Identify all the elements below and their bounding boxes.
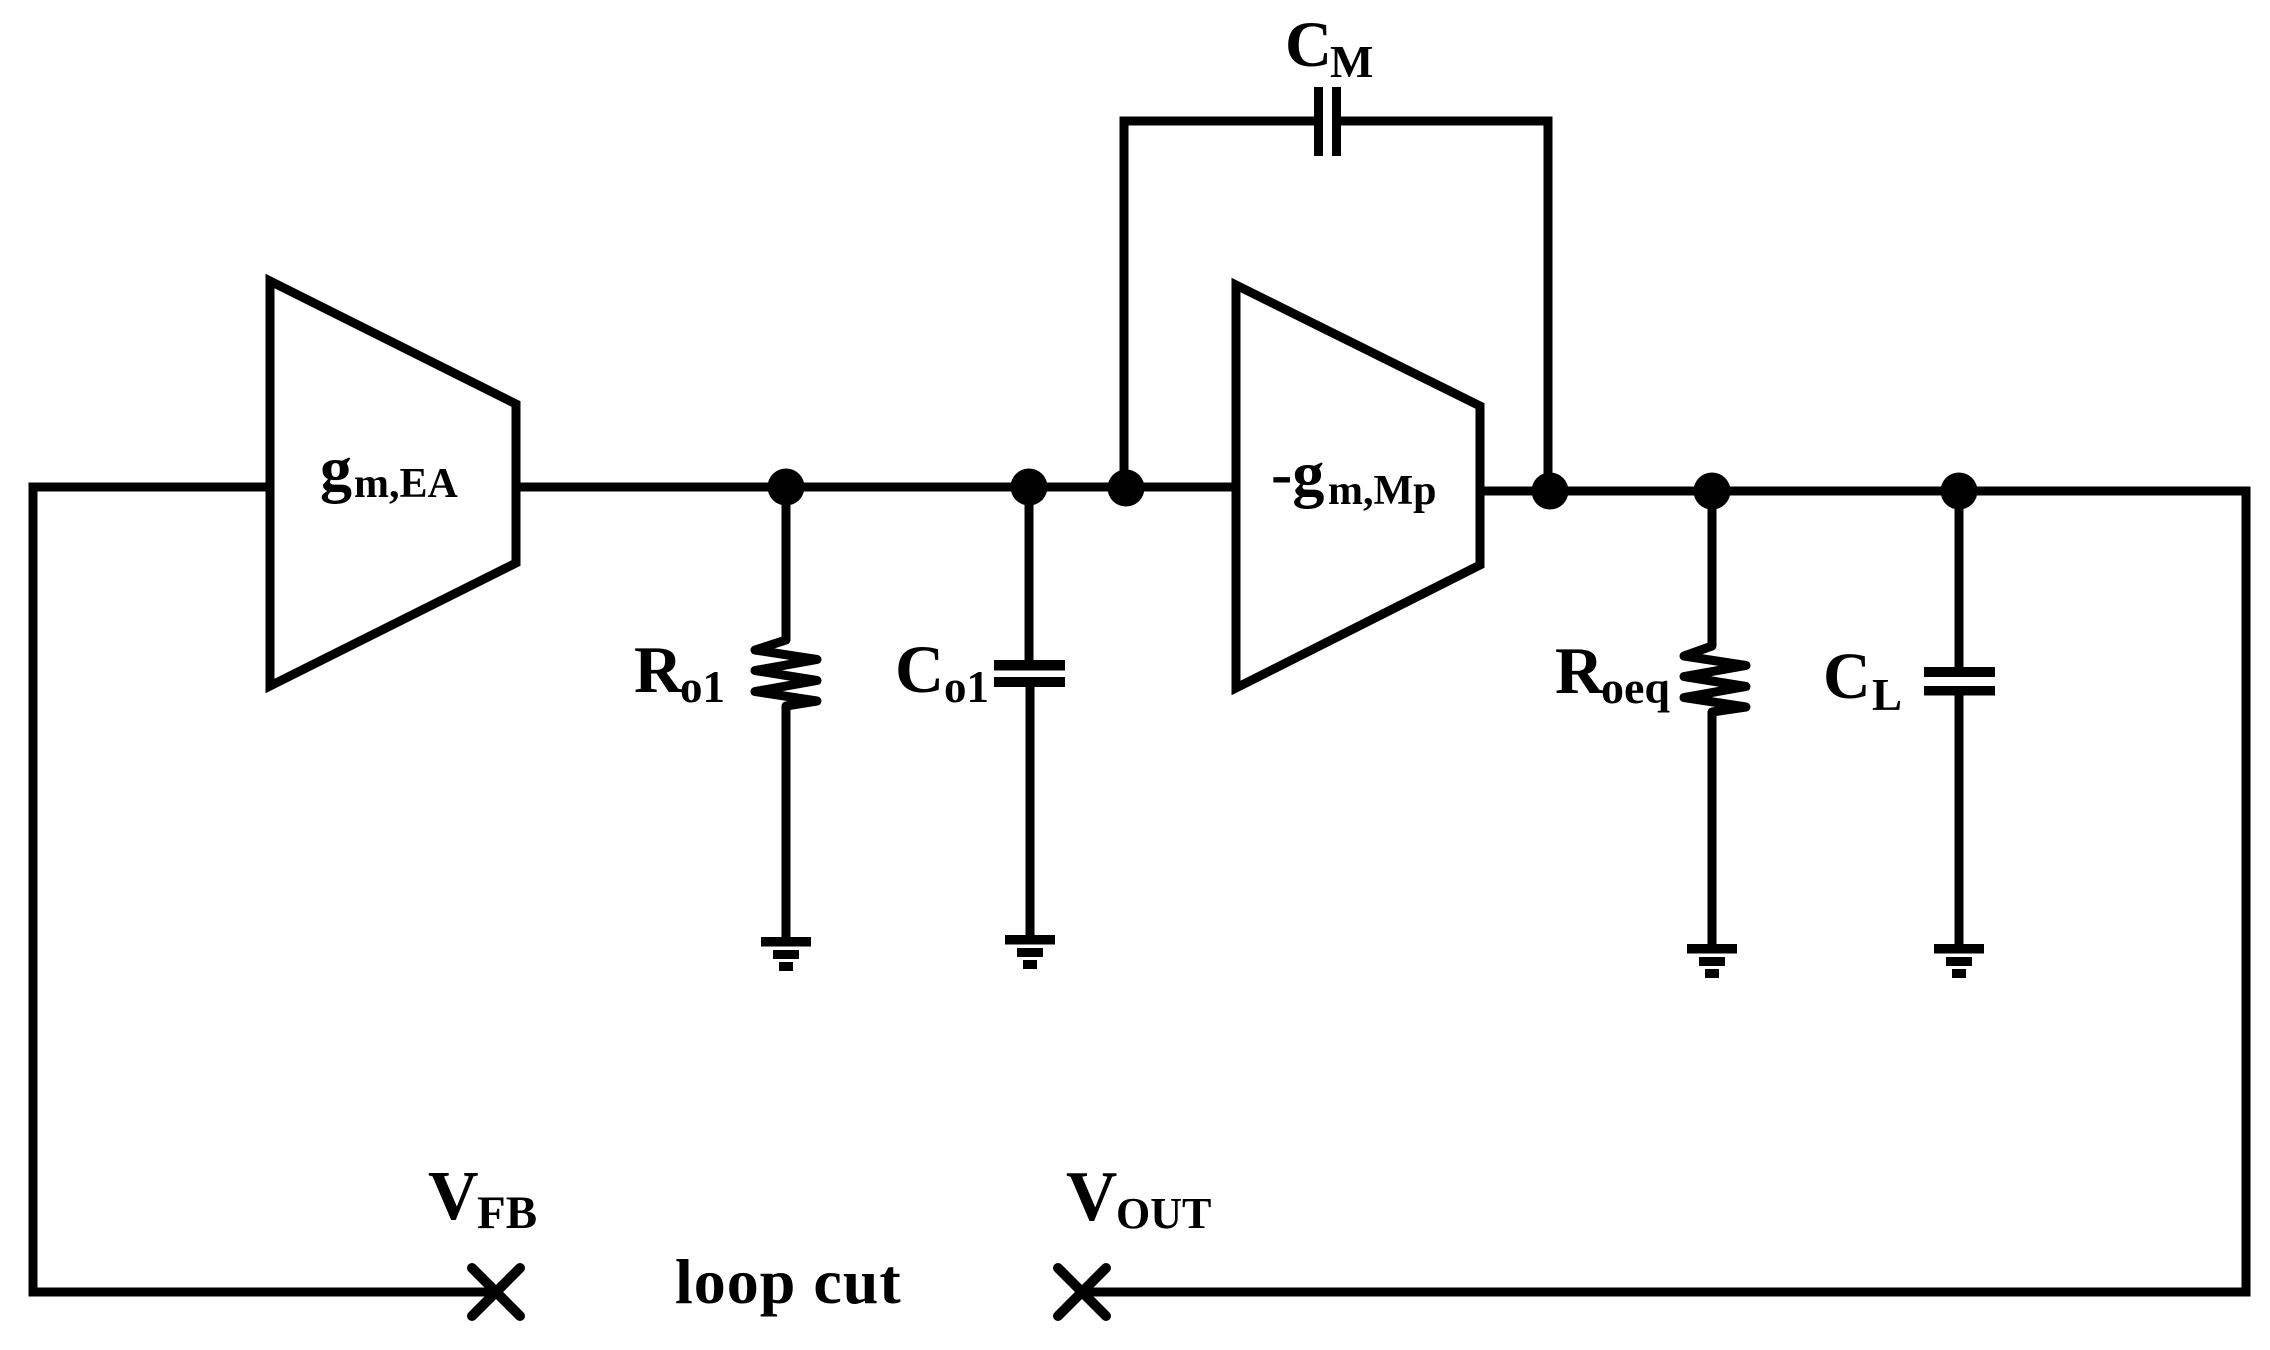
label CM bbox=[1285, 9, 1373, 87]
svg-text:V: V bbox=[428, 1158, 479, 1235]
op-amp U2 -gm,Mp bbox=[1236, 285, 1480, 688]
wire: bottom left segment to loop-cut X at VFB bbox=[29, 1288, 496, 1297]
wire: CL branch lower bbox=[1955, 695, 1964, 948]
svg-text:m,EA: m,EA bbox=[354, 461, 459, 507]
label gm,EA bbox=[320, 433, 459, 507]
svg-text:o1: o1 bbox=[680, 662, 725, 712]
svg-text:L: L bbox=[1872, 670, 1902, 720]
ground for Roeq bbox=[1687, 944, 1737, 978]
wire: Roeq branch upper bbox=[1708, 491, 1717, 647]
wire: gm,Mp output to right corner bbox=[1480, 487, 2246, 496]
svg-text:loop cut: loop cut bbox=[675, 1246, 902, 1317]
ground for Co1 bbox=[1005, 935, 1055, 969]
node C: CM left junction bbox=[1108, 470, 1145, 507]
wire: CM loop top right segment bbox=[1341, 117, 1548, 126]
capacitor CL bbox=[1924, 667, 1995, 696]
wire: bottom right segment from X at VOUT to right corner bbox=[1082, 1288, 2251, 1297]
wire: Co1 branch upper bbox=[1025, 487, 1034, 661]
capacitor CM bbox=[1314, 87, 1341, 156]
wire: Roeq branch lower bbox=[1708, 711, 1717, 948]
svg-text:o1: o1 bbox=[944, 662, 989, 712]
label -gm,Mp bbox=[1271, 438, 1437, 514]
node F: CL junction bbox=[1941, 473, 1978, 510]
svg-text:C: C bbox=[895, 631, 944, 707]
wire: input feedback wire to gm,EA bbox=[33, 483, 270, 492]
node E: Roeq junction bbox=[1694, 473, 1731, 510]
label Co1 bbox=[895, 631, 989, 712]
wire: right vertical down bbox=[2242, 487, 2251, 1293]
wire: gm,EA output to gm,Mp input bbox=[516, 483, 1236, 492]
node A: Ro1 junction bbox=[768, 469, 805, 506]
svg-text:g: g bbox=[320, 433, 352, 504]
label VFB bbox=[428, 1158, 537, 1239]
svg-text:-g: -g bbox=[1271, 438, 1324, 509]
wire: Ro1 branch upper bbox=[782, 487, 791, 641]
svg-text:R: R bbox=[1555, 634, 1604, 708]
loop cut X at VOUT bbox=[1058, 1268, 1106, 1316]
node B: Co1 junction bbox=[1011, 469, 1048, 506]
capacitor Co1 bbox=[994, 660, 1065, 687]
svg-text:oeq: oeq bbox=[1601, 662, 1670, 713]
ground for Ro1 bbox=[761, 937, 811, 971]
svg-text:C: C bbox=[1285, 9, 1332, 81]
wire: CM loop top left segment bbox=[1120, 117, 1315, 126]
svg-text:FB: FB bbox=[477, 1187, 537, 1239]
svg-text:C: C bbox=[1823, 640, 1871, 713]
svg-text:OUT: OUT bbox=[1116, 1189, 1211, 1238]
resistor Ro1 bbox=[755, 640, 817, 706]
op-amp U1 gm,EA bbox=[270, 281, 516, 686]
svg-text:V: V bbox=[1066, 1158, 1117, 1236]
ground for CL bbox=[1934, 944, 1984, 978]
node D: gm,Mp output junction bbox=[1532, 473, 1569, 510]
label Ro1 bbox=[634, 633, 725, 712]
label Roeq bbox=[1555, 634, 1670, 713]
resistor Roeq bbox=[1684, 646, 1746, 712]
svg-text:M: M bbox=[1330, 36, 1373, 87]
wire: CM loop left vertical bbox=[1120, 121, 1129, 487]
wire: Ro1 branch lower bbox=[782, 705, 791, 940]
wire: CL branch upper bbox=[1955, 491, 1964, 668]
wire: left vertical feedback wire bbox=[29, 483, 38, 1293]
wire: CM loop right vertical bbox=[1544, 117, 1553, 492]
svg-text:m,Mp: m,Mp bbox=[1328, 468, 1437, 514]
wire: Co1 branch lower bbox=[1026, 686, 1035, 938]
label VOUT bbox=[1066, 1158, 1211, 1238]
label CL bbox=[1823, 640, 1902, 720]
loop cut X at VFB bbox=[472, 1268, 520, 1316]
svg-text:R: R bbox=[634, 633, 683, 707]
